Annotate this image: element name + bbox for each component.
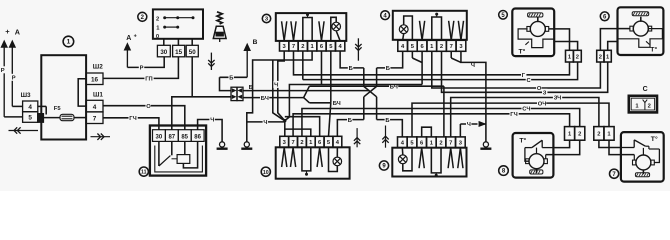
wire Ch (switch 4 pin 3 to ground) [461, 51, 486, 141]
lamp to pin 4 [401, 148, 403, 155]
wire label GP [144, 75, 153, 83]
svg-text:7: 7 [450, 44, 453, 50]
svg-text:2: 2 [440, 44, 443, 50]
switch 9 contact pin 3 [458, 148, 463, 168]
svg-text:7: 7 [93, 115, 97, 122]
wire Ch to center ground [247, 51, 312, 142]
thermal contact [525, 140, 554, 147]
label T deg [519, 42, 529, 56]
wire GCh: Sh1-7 to relay 30 [103, 118, 159, 130]
connector Sh2 label [93, 63, 103, 70]
wire label Ch [263, 118, 268, 126]
wire label Ch [273, 81, 278, 89]
wire label OCh [537, 100, 546, 108]
switch 4 body [393, 11, 467, 40]
wire label V [253, 39, 258, 46]
svg-text:4: 4 [93, 104, 97, 111]
lamp to pin 4 [336, 147, 338, 157]
wire label B [347, 116, 352, 124]
lamp to pin 4 [403, 34, 404, 41]
contact row position 1 [163, 26, 179, 29]
wire from switch 4 pins 5/6 down [412, 51, 422, 84]
relay terminal 86 [191, 130, 204, 142]
wire S (switch 3 pin 2 to motor 5 pin 2) [302, 51, 304, 74]
svg-text:4: 4 [401, 141, 405, 147]
svg-text:ОЧ: ОЧ [538, 101, 547, 107]
svg-text:5: 5 [329, 44, 333, 50]
motor 8 [526, 148, 548, 173]
svg-text:6: 6 [420, 44, 424, 50]
wire Ch ground link [247, 121, 285, 123]
svg-text:4: 4 [336, 140, 340, 146]
wire Ch branch [273, 60, 283, 120]
svg-text:Т°: Т° [519, 48, 526, 56]
relay terminal 30 [153, 130, 166, 142]
svg-text:6: 6 [320, 44, 324, 50]
connector C label [643, 86, 648, 93]
switch position labels 2 1 0 [156, 16, 160, 40]
wire B bridge [220, 76, 248, 78]
svg-text:11: 11 [141, 170, 147, 176]
illumination lamp [332, 22, 341, 31]
svg-text:С: С [643, 86, 648, 93]
svg-text:1: 1 [568, 132, 572, 138]
wire Z (switch 4 pin 2 to motor 6 pin 1) [442, 51, 608, 92]
component label 1 [63, 36, 74, 47]
component label 9 [379, 161, 388, 170]
switch 9 contact pin 6 [419, 148, 424, 168]
wire label P [139, 64, 144, 72]
motor 7 internal wires [654, 149, 659, 163]
motor 6 [630, 17, 652, 36]
wire B feed from connector [243, 90, 370, 92]
wire BCh upper branch [309, 86, 444, 137]
svg-text:1: 1 [67, 39, 71, 46]
switch 4 contact pin 3 [458, 21, 463, 40]
wire label BCh [332, 99, 341, 107]
switch 9 body [392, 148, 466, 177]
switch 4 rocker common [432, 13, 442, 41]
component label 8 [499, 166, 509, 176]
wire continuation arrow up (near switch 10) [354, 128, 360, 147]
motor 6 pins 2 1 [597, 50, 612, 62]
svg-text:5: 5 [410, 141, 414, 147]
terminal 50 [186, 45, 198, 57]
svg-text:16: 16 [91, 76, 99, 83]
svg-text:Б: Б [249, 85, 253, 91]
wire ZCh (switch 9 pin 7 to motor 7 pin 2) [451, 98, 599, 137]
switch 10 contact pin 3 [282, 148, 287, 167]
wire label Ch [471, 63, 475, 69]
ground (center) [241, 142, 252, 149]
svg-text:Ш3: Ш3 [21, 92, 31, 99]
svg-text:2: 2 [597, 132, 600, 138]
wire continuation arrow up to B [244, 44, 250, 77]
svg-text:2: 2 [141, 15, 145, 21]
wire to connector top [220, 77, 232, 90]
svg-text:2: 2 [439, 141, 442, 147]
svg-text:БЧ: БЧ [333, 101, 341, 107]
motor 7 body [621, 132, 664, 182]
connector Sh1 label [93, 92, 103, 99]
svg-text:+: + [134, 33, 137, 39]
wire label P [0, 66, 5, 74]
wire continuation arrow (right) [91, 134, 111, 140]
motor 7 [633, 148, 655, 174]
lamp feed [403, 148, 412, 171]
svg-text:О: О [146, 104, 151, 110]
svg-text:2: 2 [156, 16, 159, 22]
mounting block 1 [41, 55, 86, 139]
svg-text:1: 1 [309, 140, 313, 146]
relay terminal 87 [165, 130, 178, 142]
svg-text:8: 8 [502, 169, 506, 175]
svg-text:ГЧ: ГЧ [129, 116, 136, 122]
wire label GCh [510, 110, 519, 118]
fuse F5 [44, 114, 87, 120]
svg-text:0: 0 [156, 34, 159, 40]
connector Sh3 label [21, 92, 31, 99]
connector Sh3 pin 4 [23, 101, 38, 112]
svg-text:Ш1: Ш1 [93, 92, 103, 99]
wire label BCh [260, 94, 269, 102]
wire label B [385, 64, 390, 72]
switch 10 contact pin 6 [317, 148, 322, 167]
svg-text:4: 4 [339, 44, 343, 50]
wire GCh (switch 10 pin 7 to motor 8 pin 1) [293, 114, 570, 137]
switch 9 rocker common [431, 148, 441, 177]
wire label Ch [466, 121, 471, 129]
wire B stub lower right (switch 9 pin 4) [377, 120, 403, 137]
svg-text:4: 4 [401, 44, 405, 50]
motor 8 internal wires [525, 148, 529, 162]
wire label P [11, 74, 16, 82]
illumination lamp [399, 25, 408, 34]
label T deg [651, 135, 658, 143]
motor 7 pins 2 1 [594, 127, 614, 141]
svg-text:Б: Б [348, 118, 352, 124]
switch 3 rocker common [303, 13, 312, 41]
svg-text:В: В [253, 39, 258, 46]
svg-text:А: А [126, 35, 131, 42]
wire B stub upper left (switch 3 pin 4) [340, 51, 364, 68]
switch 4 contact pin 7 [449, 21, 454, 40]
svg-text:1: 1 [430, 141, 434, 147]
relay coil [172, 141, 198, 168]
svg-text:А: А [15, 27, 20, 36]
svg-text:Р: Р [140, 66, 144, 72]
wire continuation arrow up (near switch 9) [382, 126, 388, 148]
wire label GCh [129, 114, 138, 122]
svg-text:6: 6 [318, 140, 322, 146]
svg-text:Ч: Ч [467, 122, 471, 128]
wire relay 87 output [172, 97, 231, 130]
wire B stub lower left (switch 10 pin 4) [337, 120, 363, 137]
wire label BCh [389, 83, 398, 91]
motor 8 body [513, 133, 554, 178]
wire R: terminal 30 to +A [124, 44, 164, 68]
wire continuation arrow (down, from ignition area) [208, 53, 214, 70]
wire label B [229, 74, 234, 82]
svg-text:ГП: ГП [145, 77, 152, 83]
component label 4 [381, 11, 390, 20]
node A+ (feed from battery) [126, 33, 137, 42]
svg-text:85: 85 [181, 134, 188, 140]
wire switch 3 pin 6 stub [320, 51, 322, 85]
ignition switch 2 body [153, 9, 203, 38]
svg-text:ГЧ: ГЧ [510, 112, 517, 118]
svg-text:2: 2 [578, 132, 581, 138]
svg-text:7: 7 [449, 141, 452, 147]
thermal breaker [518, 29, 554, 48]
connector Sh1 pin 7 [86, 112, 103, 124]
motor 8 pins 1 2 [565, 127, 585, 141]
wire label B [249, 85, 253, 91]
ignition key icon [213, 12, 226, 42]
relay contact [159, 141, 172, 166]
svg-text:6: 6 [420, 141, 424, 147]
wire BCh lower branch [309, 102, 330, 104]
connector Sh3 pin 5 [23, 112, 38, 123]
svg-text:5: 5 [28, 115, 32, 122]
wire BCh riser (switch 3 pin 5 to switch 10 pin 5) [329, 51, 331, 136]
junction dot [283, 119, 286, 122]
wire GP: Sh2-16 to terminal 15 [103, 57, 178, 79]
svg-text:СЧ: СЧ [522, 107, 530, 113]
svg-text:Б: Б [349, 66, 353, 72]
svg-text:87: 87 [168, 134, 175, 140]
switch 4 contact pin 6 [419, 21, 424, 40]
svg-text:+: + [5, 27, 10, 36]
connector Sh1 pin 4 [86, 100, 103, 112]
node +A battery feed label [5, 27, 20, 36]
lamp feed [331, 17, 336, 41]
lamp feed [404, 16, 413, 40]
wire from switch 3 pin 3 [278, 51, 285, 121]
wire BCh from connector with split [243, 86, 309, 103]
svg-text:1: 1 [311, 44, 315, 50]
wire Ch arrow from switch 9 pin 3 [460, 122, 486, 137]
wire OCh (switch 9 pin 5 to motor 7 pin 1) [412, 103, 609, 137]
motor 7 wires to pins [599, 140, 634, 160]
component label 7 [610, 169, 619, 178]
svg-text:2: 2 [648, 104, 651, 110]
component label 2 [138, 12, 147, 21]
switch 9 pins 4 5 6 1 2 7 3 [398, 137, 466, 148]
switch 3 contact pin 7 [291, 21, 296, 40]
motor 6 wires [600, 29, 617, 51]
wire S main [302, 74, 304, 80]
wire continuation arrow (down, between switch 3 and 4) [355, 38, 361, 60]
svg-text:Ч: Ч [274, 83, 278, 89]
svg-text:Ч: Ч [471, 63, 475, 69]
svg-text:1: 1 [607, 132, 611, 138]
component label 10 [261, 167, 270, 176]
svg-text:30: 30 [156, 134, 163, 140]
svg-text:3: 3 [459, 141, 463, 147]
wire S horizontal [303, 62, 578, 80]
wire switch 9 pins 6-1 jumper [422, 127, 432, 137]
label T deg [519, 137, 526, 145]
svg-text:1: 1 [635, 104, 639, 110]
svg-text:Р: Р [12, 75, 16, 81]
svg-text:1: 1 [568, 54, 572, 60]
wire G (switch 3 pin 7 to motor 5 pin 1) [293, 51, 569, 75]
svg-text:7: 7 [291, 140, 294, 146]
svg-text:10: 10 [263, 170, 269, 176]
wire label Z [542, 89, 547, 97]
switch 3 pins 3 7 2 1 6 5 4 [280, 41, 345, 51]
svg-text:2: 2 [300, 140, 303, 146]
svg-text:Ш2: Ш2 [93, 63, 103, 70]
wire label G [521, 71, 526, 79]
wire from terminal 50 [191, 57, 193, 97]
wire relay 86 to ground [198, 120, 223, 142]
svg-text:Ч: Ч [210, 118, 214, 124]
svg-text:Т°: Т° [519, 137, 526, 145]
ground (relay) [217, 142, 228, 149]
lamp feed [329, 147, 338, 171]
svg-text:Ч: Ч [263, 120, 267, 126]
wire continuation arrow (to body harness, left) [9, 127, 39, 133]
svg-text:1: 1 [430, 44, 434, 50]
wire label Ch [209, 116, 214, 124]
svg-text:Б: Б [229, 75, 233, 81]
wire P to battery (second arrow) [9, 41, 22, 107]
wire B crossover [364, 68, 377, 120]
svg-text:З: З [543, 90, 547, 96]
svg-text:5: 5 [411, 44, 415, 50]
wire switch 10 pin 6 return [285, 117, 320, 137]
fuse F5 label [54, 106, 62, 112]
svg-text:50: 50 [189, 49, 196, 56]
wire label S [526, 76, 532, 84]
junction on block edge [38, 114, 44, 123]
motor 6 wires to pins [618, 28, 631, 30]
svg-text:30: 30 [160, 49, 167, 56]
label T deg [646, 41, 657, 53]
svg-text:Б: Б [385, 118, 389, 124]
svg-text:2: 2 [576, 54, 579, 60]
wire O (switch 4 pin 1 to motor 6 pin 2) [432, 51, 601, 88]
svg-text:86: 86 [194, 134, 201, 140]
connector Sh2 pin 16 [86, 73, 103, 85]
svg-text:ЗЧ: ЗЧ [554, 96, 561, 102]
connector (plug pair) [231, 87, 243, 100]
wire from switch 4 pin 7 to Ch [451, 51, 461, 62]
svg-text:2: 2 [599, 54, 602, 60]
svg-text:Б: Б [386, 66, 390, 72]
motor 8 wires to pins [546, 140, 580, 159]
svg-text:Т°: Т° [650, 45, 657, 53]
wire common return to junction [285, 85, 422, 121]
relay inner case [155, 146, 203, 172]
terminal 30 [157, 45, 170, 57]
wire P to battery (left arrow) [1, 41, 22, 117]
illumination lamp [333, 157, 342, 166]
lamp to pin 4 [336, 31, 340, 41]
svg-text:3: 3 [283, 44, 287, 50]
motor 5 pins 1 2 [566, 50, 582, 62]
wire label ZCh [553, 94, 562, 102]
wire B stub upper right (switch 4 pin 4) [377, 51, 403, 68]
switch 3 contact pin 6 [319, 21, 324, 40]
thermal contact [621, 140, 660, 149]
motor 5 wires to pins [549, 29, 578, 50]
vent slot [530, 170, 543, 174]
svg-text:9: 9 [382, 164, 386, 170]
wire O: Sh1-4 to relay 85 [103, 106, 185, 130]
motor 5 [527, 17, 549, 36]
svg-text:3: 3 [459, 44, 463, 50]
thermal breaker [618, 29, 663, 48]
svg-text:5: 5 [327, 140, 331, 146]
wire switch 10 pin 1 return [285, 129, 311, 136]
wire Sh3-4 to junction [38, 106, 46, 114]
terminal 15 [173, 45, 185, 57]
wire label B [348, 64, 353, 72]
svg-text:15: 15 [175, 49, 182, 56]
switch 4 pins 4 5 6 1 2 7 3 [398, 40, 466, 51]
vent slot [635, 173, 649, 177]
component label 11 [139, 167, 148, 176]
svg-text:О: О [537, 86, 542, 92]
svg-text:Т°: Т° [651, 135, 658, 143]
switch 10 rocker common [302, 147, 311, 175]
svg-text:1: 1 [606, 54, 610, 60]
switch 10 pins 3 7 2 1 6 5 4 [280, 136, 342, 147]
switch 3 contact pin 3 [282, 21, 287, 40]
svg-text:Р: Р [1, 68, 5, 74]
component label 3 [262, 14, 270, 22]
component label 5 [499, 11, 508, 20]
svg-text:БЧ: БЧ [261, 96, 269, 102]
wire label O [536, 85, 542, 93]
ground (right) [480, 142, 491, 149]
motor 6 body [618, 7, 664, 55]
switch 3 body [276, 13, 347, 41]
switch 10 contact pin 7 [290, 148, 295, 167]
relay terminal 85 [178, 130, 191, 142]
svg-text:7: 7 [292, 44, 295, 50]
svg-text:3: 3 [283, 140, 287, 146]
illumination lamp [398, 155, 407, 164]
wire label SCh [522, 105, 531, 113]
switch 9 contact pin 7 [448, 148, 453, 168]
motor 5 body [512, 9, 554, 57]
switch 10 body [276, 147, 350, 178]
connector C [629, 96, 657, 113]
svg-text:4: 4 [28, 104, 32, 111]
pin stubs [164, 39, 192, 46]
contact row position 2 [163, 16, 194, 19]
wire label O [146, 102, 152, 110]
relay 11 body [150, 126, 206, 176]
wire inside block (16 to 4) [78, 79, 86, 106]
wire to switch 10 pin 3 [284, 121, 286, 137]
vent slot [632, 12, 649, 16]
svg-text:F5: F5 [54, 106, 62, 112]
svg-text:1: 1 [156, 25, 160, 31]
svg-text:2: 2 [301, 44, 304, 50]
wire label B [385, 116, 390, 124]
component label 6 [600, 12, 609, 21]
vent slot [528, 13, 543, 17]
wire SCh (switch 10 pin 2 to motor 8 pin 2) [302, 109, 580, 137]
svg-text:7: 7 [612, 172, 616, 178]
